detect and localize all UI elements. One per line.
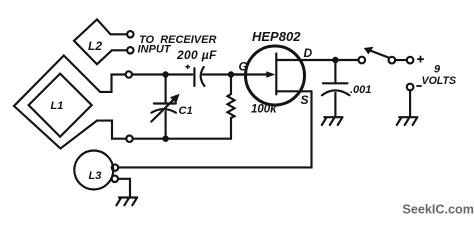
svg-text:100k: 100k <box>251 104 277 116</box>
switch S1 throw circle <box>389 57 396 64</box>
resistor R1 100k <box>228 75 235 119</box>
coil L2 upper terminal circle <box>127 31 133 37</box>
svg-text:200 µF: 200 µF <box>176 48 217 62</box>
coil L1 lower terminal circle <box>126 136 132 142</box>
capacitor C3 .001 curved plate <box>322 90 350 95</box>
svg-text:INPUT: INPUT <box>138 44 172 56</box>
text battery plus <box>417 56 424 63</box>
wire switch to battery plus <box>395 59 407 61</box>
switch S1 blade <box>370 50 390 58</box>
coil L1 upper lead <box>100 75 126 92</box>
capacitor C1 arrow shaft <box>151 100 173 122</box>
capacitor C1 top wire <box>165 75 167 104</box>
wire battery minus to ground <box>409 90 411 116</box>
battery plus terminal circle <box>407 57 414 64</box>
capacitor C2 200uF left plate <box>193 68 195 86</box>
ground under C3 <box>322 117 343 125</box>
coil L3 lower terminal circle <box>112 176 118 182</box>
junction dot gate node <box>228 71 234 77</box>
svg-text:HEP802: HEP802 <box>252 29 301 44</box>
coil L1 outer turn <box>14 56 100 149</box>
capacitor C3 .001 top wire <box>334 60 336 83</box>
svg-text:9: 9 <box>434 64 441 76</box>
coil L3 upper terminal circle <box>112 164 118 170</box>
capacitor C1 arrowhead <box>170 94 180 104</box>
transistor Q1 source lead <box>276 90 311 92</box>
capacitor C1 top plate <box>154 102 176 104</box>
transistor Q1 gate arrowhead <box>266 71 275 78</box>
switch S1 blade arrowhead <box>364 47 374 55</box>
coil L2 lower lead <box>112 49 127 51</box>
svg-text:D: D <box>304 46 313 60</box>
text plus of C2 <box>186 65 190 69</box>
switch S1 pole circle <box>359 57 366 64</box>
coil L1 lower lead <box>97 121 126 139</box>
coil L2 lower terminal circle <box>127 47 133 53</box>
wire source down to L3 <box>118 91 311 167</box>
capacitor C2 200uF curved plate <box>201 67 205 86</box>
transistor Q1 channel bar <box>275 53 277 94</box>
svg-text:L3: L3 <box>89 170 102 182</box>
capacitor C3 .001 bottom wire <box>334 93 336 117</box>
coil L2 body <box>74 19 112 64</box>
wire drain to switch <box>335 59 358 61</box>
coil L2 upper lead <box>111 33 128 35</box>
junction dot C1 top <box>162 71 168 77</box>
capacitor C3 .001 top plate <box>323 82 348 84</box>
transistor Q1 gate wire <box>231 73 268 75</box>
battery minus terminal circle <box>407 84 414 91</box>
svg-text:S: S <box>301 93 309 107</box>
wire top rail right of C2 <box>203 73 243 75</box>
capacitor C1 bottom wire <box>165 112 167 139</box>
wire L3 lower terminal to ground <box>118 179 130 197</box>
svg-text:.001: .001 <box>350 84 371 96</box>
svg-text:C1: C1 <box>179 105 193 117</box>
svg-text:L2: L2 <box>88 39 102 53</box>
svg-text:SeekIC.com: SeekIC.com <box>403 203 474 217</box>
svg-text:L1: L1 <box>51 100 64 112</box>
coil L3 body <box>74 151 113 190</box>
transistor Q1 drain lead <box>276 59 335 61</box>
junction dot C1 bottom <box>162 136 168 142</box>
transistor Q1 body circle <box>246 46 305 105</box>
wire top rail left <box>132 73 192 75</box>
wire bottom rail <box>133 118 231 139</box>
junction dot drain node <box>332 57 338 63</box>
text battery minus <box>416 85 421 87</box>
capacitor C1 bottom plate <box>151 109 176 113</box>
svg-text:VOLTS: VOLTS <box>422 75 457 87</box>
coil L1 inner turn <box>29 74 92 137</box>
ground under battery <box>397 117 418 125</box>
ground under L3 <box>116 198 137 206</box>
coil L1 upper terminal circle <box>126 71 132 77</box>
svg-text:G: G <box>239 60 248 74</box>
